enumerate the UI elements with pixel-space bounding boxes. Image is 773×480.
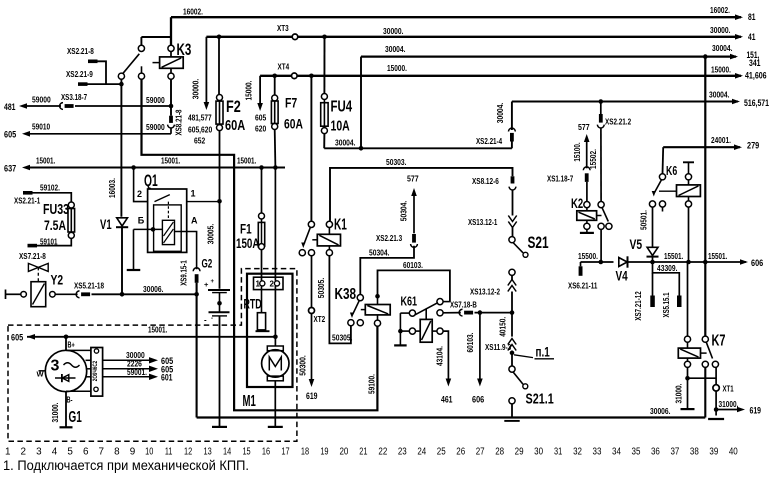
wire K3 coil output 59000 [170, 79, 172, 115]
wire 30004 bus [361, 55, 736, 57]
wire 15001 F7 output [274, 130, 277, 168]
svg-text:V1: V1 [100, 216, 112, 232]
node junction V5 [650, 260, 655, 265]
svg-text:10A: 10A [331, 117, 350, 134]
wire 577 marker [413, 192, 415, 233]
svg-text:59000: 59000 [146, 122, 165, 132]
connector XS13.12-1 [508, 216, 516, 222]
fuse F7 60A [274, 76, 276, 95]
svg-text:601: 601 [161, 373, 173, 383]
wire 60103 to 606 [478, 310, 483, 315]
connector XS2.21-2 [599, 114, 603, 123]
svg-text:16003.: 16003. [107, 178, 117, 198]
node junction Q1 pin2 [131, 165, 136, 170]
svg-text:24001.: 24001. [711, 135, 731, 145]
coil K2 [584, 202, 590, 208]
wire K7 coil bottom 31000 [687, 367, 689, 409]
svg-text:15000.: 15000. [711, 65, 731, 75]
svg-text:33: 33 [593, 447, 602, 458]
svg-text:652: 652 [194, 136, 206, 146]
svg-text:605,620: 605,620 [188, 125, 213, 135]
wire 2226 output to 605 [103, 368, 150, 370]
wire 30004 arrow to 151,341 [730, 54, 738, 60]
wire 15001 to 637 [22, 165, 30, 171]
node junction F2 feed [217, 35, 222, 40]
connector XS6.21-11 [579, 266, 583, 276]
svg-text:15000.: 15000. [387, 63, 407, 73]
node junction F1 feed [259, 165, 264, 170]
svg-text:50304.: 50304. [369, 247, 390, 257]
svg-text:481,577: 481,577 [188, 113, 212, 123]
valve Y2 butterfly symbol [28, 263, 38, 271]
connector XS13.12-2 [508, 280, 516, 286]
svg-text:K7: K7 [712, 333, 726, 350]
wire G1 phase leads [86, 359, 91, 361]
wire 43104 to 461 [443, 331, 448, 378]
svg-text:35: 35 [632, 447, 641, 458]
svg-text:3: 3 [36, 447, 42, 458]
svg-text:1. Подключается при механическ: 1. Подключается при механической КПП. [3, 458, 249, 474]
node junction V1 bottom [120, 292, 125, 297]
node junction F7 feed [272, 74, 277, 79]
svg-text:30004.: 30004. [712, 43, 733, 53]
contact K1 [308, 221, 314, 227]
wire K6 coil to 15501 [688, 207, 690, 262]
ground K2 [580, 232, 594, 234]
coil K1 [326, 221, 332, 227]
svg-text:2О9Ч6С2: 2О9Ч6С2 [92, 360, 99, 381]
svg-text:637: 637 [4, 164, 16, 174]
diode G1 internal [55, 377, 76, 379]
svg-text:50501.: 50501. [639, 210, 649, 230]
svg-text:2: 2 [137, 189, 142, 199]
svg-text:+: + [204, 280, 209, 289]
ground G2 [212, 426, 227, 428]
wire 15501 [628, 261, 746, 263]
connector XS3.18-7 [60, 103, 63, 110]
svg-text:7: 7 [99, 447, 105, 458]
svg-text:23: 23 [398, 447, 407, 458]
svg-text:32: 32 [573, 447, 582, 458]
wire RTD pin2 to motor [274, 286, 276, 346]
svg-text:279: 279 [747, 140, 759, 150]
wire G2 negative to ground [219, 316, 221, 427]
wire 30000 bus [206, 36, 741, 38]
svg-text:RTD: RTD [244, 297, 262, 312]
svg-text:59100.: 59100. [367, 374, 377, 394]
node junction XS7.18-B wire [510, 310, 515, 315]
motor M1 [267, 346, 283, 351]
wire 16002 arrow to 81 [735, 14, 743, 20]
node junction A-line [194, 292, 199, 297]
svg-text:16002.: 16002. [183, 7, 203, 17]
contact K7 [702, 336, 708, 342]
svg-text:V4: V4 [616, 269, 629, 284]
wire Q1 pin B to ground [134, 228, 163, 230]
svg-text:XS1.18-7: XS1.18-7 [547, 173, 573, 183]
wire S21.1 to 30006 bus [511, 404, 513, 418]
wire XS7.18-B to S21 chain [443, 312, 461, 314]
connector XS8.12-6 [511, 176, 515, 183]
svg-text:43104.: 43104. [435, 346, 445, 366]
svg-text:605: 605 [255, 113, 267, 123]
connector XS7.21-8 output [37, 238, 71, 245]
wire 30004 right vertical [704, 57, 706, 336]
solenoid Y2 [31, 282, 46, 307]
svg-text:50303.: 50303. [386, 157, 407, 167]
wire 30000 arrow to 41 [735, 34, 743, 40]
svg-text:13: 13 [204, 447, 213, 458]
svg-text:41,606: 41,606 [745, 71, 767, 81]
wire 30005 F2 to Q1/G2 [219, 131, 221, 289]
svg-text:15001.: 15001. [36, 156, 55, 166]
coil Q1 [162, 220, 174, 244]
svg-text:41: 41 [748, 32, 756, 42]
svg-text:21: 21 [359, 447, 368, 458]
ground K61 [394, 344, 407, 346]
svg-text:606: 606 [472, 394, 484, 404]
svg-text:XS11.9-3: XS11.9-3 [485, 342, 511, 352]
svg-text:XS13.12-2: XS13.12-2 [470, 286, 500, 296]
terminal XT3 [292, 34, 298, 40]
wire 16003 vertical [120, 84, 122, 217]
svg-text:B-: B- [67, 396, 73, 405]
coil K7 [687, 262, 689, 336]
svg-text:+: + [211, 279, 215, 285]
wire 15001 to G1 area [27, 336, 275, 338]
terminal XT4 [292, 73, 298, 79]
wire 15501 arrow to 606 [740, 259, 748, 265]
svg-text:15501.: 15501. [664, 251, 683, 261]
svg-text:341: 341 [749, 58, 761, 68]
svg-text:30005.: 30005. [206, 224, 216, 245]
svg-text:15001.: 15001. [237, 156, 256, 166]
wire to XT1 [688, 377, 717, 379]
svg-text:9: 9 [130, 447, 136, 458]
svg-text:XT4: XT4 [278, 61, 290, 71]
svg-text:50305.: 50305. [316, 278, 326, 299]
svg-text:15500.: 15500. [578, 251, 598, 261]
node junction K6 coil [686, 260, 691, 265]
svg-text:15501.: 15501. [708, 251, 727, 261]
svg-text:30004.: 30004. [495, 103, 505, 124]
wire 50305 K1 coil to K38 [329, 256, 351, 344]
frame dashed enclosure [8, 269, 297, 442]
svg-text:K6: K6 [666, 164, 677, 178]
wire M1 to ground [274, 381, 276, 427]
svg-text:59101: 59101 [40, 237, 58, 247]
svg-text:S21.1: S21.1 [526, 390, 554, 407]
svg-text:30006.: 30006. [143, 284, 164, 294]
svg-text:10: 10 [145, 447, 154, 458]
node junction Q1 pin1 [217, 199, 222, 204]
svg-text:50304.: 50304. [399, 201, 409, 222]
svg-text:605: 605 [11, 332, 23, 342]
svg-text:XS8.21-8: XS8.21-8 [174, 109, 184, 135]
connector XS1.18-7 [583, 167, 590, 170]
svg-text:60A: 60A [284, 116, 303, 132]
wire 24001 bus [663, 146, 740, 148]
wire 50303 K1 to S21 [330, 168, 513, 226]
node junction RTD pin2 feed [273, 165, 278, 170]
svg-text:577: 577 [407, 174, 419, 184]
svg-text:30004.: 30004. [385, 44, 406, 54]
wire G1 B- to ground [65, 392, 67, 428]
wire 59100 loop K3 to K38 coil [142, 79, 378, 410]
svg-text:50305.: 50305. [332, 332, 353, 342]
svg-text:п.1: п.1 [536, 345, 551, 360]
svg-text:619: 619 [750, 405, 762, 415]
svg-text:15001.: 15001. [148, 324, 167, 334]
wire 30006 left leg [196, 283, 198, 418]
wire K1 contact feed from 15000 [310, 76, 312, 222]
svg-text:59000: 59000 [32, 95, 51, 105]
ground Q1 [127, 269, 141, 271]
node 30000 branch marker to 481,577 [205, 37, 207, 102]
wire 50300 to 619 [311, 314, 313, 379]
svg-text:2: 2 [21, 447, 27, 458]
svg-text:5: 5 [67, 447, 73, 458]
contact K61 terminals [437, 299, 443, 305]
wire 16002 bus [171, 16, 741, 18]
svg-text:-: - [204, 315, 207, 324]
wire 16002 drop to K3 [170, 17, 172, 45]
svg-text:30004.: 30004. [335, 138, 356, 148]
wire 15000 arrow to 41,606 [735, 73, 743, 79]
wire 31000 to 619 [715, 391, 717, 415]
wire 15500 [581, 261, 614, 263]
svg-text:606: 606 [751, 258, 763, 268]
node junction 30004 right vertical [703, 54, 708, 59]
wire Y2 left lead [5, 290, 7, 300]
svg-text:40: 40 [729, 447, 738, 458]
ground XT1 [708, 418, 724, 420]
svg-text:15100.: 15100. [572, 142, 582, 161]
svg-text:15502.: 15502. [588, 149, 598, 169]
generator G1 [45, 350, 86, 391]
wire 30004 arrow to 516,571 [732, 99, 740, 105]
svg-text:1: 1 [191, 189, 196, 199]
svg-text:18: 18 [301, 447, 310, 458]
wire 24001 drop to K6 [662, 147, 665, 174]
contact K3 lower terminals [118, 73, 124, 79]
wire 30004 FU4 output [324, 147, 512, 149]
svg-text:XS2.21-1: XS2.21-1 [14, 195, 40, 205]
wire 15000 bus [260, 75, 741, 77]
svg-text:20: 20 [339, 447, 348, 458]
wire G1 B+ [65, 337, 67, 351]
fuse F1 150A [261, 168, 263, 214]
connector XS7.21-12 [650, 296, 655, 308]
connector XS8.21-8 [169, 116, 173, 123]
wire 30000 output to 605 [103, 359, 150, 361]
contact K3 blade [123, 54, 139, 74]
svg-text:31000.: 31000. [50, 403, 60, 423]
svg-text:38: 38 [690, 447, 699, 458]
svg-text:59001.: 59001. [127, 367, 147, 377]
wire Y2 right lead 30006 [50, 292, 56, 298]
svg-text:G2: G2 [202, 256, 213, 270]
svg-text:12: 12 [184, 447, 192, 458]
wire V1 to 30006 [121, 227, 123, 294]
svg-text:XS2.21-9: XS2.21-9 [66, 69, 93, 79]
connector XS9.15-1 [193, 268, 200, 271]
coil K6 [683, 161, 694, 163]
svg-text:17: 17 [281, 447, 289, 458]
contact K2 [598, 202, 604, 208]
svg-text:30006.: 30006. [650, 406, 671, 416]
fuse FU33 7.5A [33, 193, 72, 202]
node junction K1 feed [309, 74, 314, 79]
svg-text:30000.: 30000. [710, 25, 731, 35]
svg-text:30: 30 [534, 447, 543, 458]
connector XS11.9-3 [508, 339, 516, 345]
svg-text:XS7.21-8: XS7.21-8 [19, 251, 46, 261]
wire K1 to XT2 [311, 256, 313, 307]
svg-text:11: 11 [165, 447, 173, 458]
svg-text:3: 3 [51, 358, 60, 375]
svg-text:30000.: 30000. [383, 26, 404, 36]
wire F1 to RTD pin1 [261, 250, 263, 281]
fuse F2 60A [218, 37, 220, 95]
svg-text:50300.: 50300. [298, 355, 308, 376]
ground K7 coil [681, 408, 695, 410]
wire 60103 K38 to K61 [378, 270, 450, 301]
wire 43309 [653, 262, 680, 296]
svg-text:37: 37 [670, 447, 679, 458]
svg-text:Б: Б [138, 215, 145, 225]
wire K2 to 15500 [600, 229, 602, 262]
coil K61 [425, 309, 427, 320]
wire 59001 output to 601 [103, 376, 150, 378]
wire G1 bottom pin [66, 390, 91, 392]
svg-text:19: 19 [320, 447, 329, 458]
svg-text:Q1: Q1 [144, 172, 158, 190]
svg-text:K2: K2 [571, 196, 583, 211]
connector XS5.15.1 [677, 296, 682, 308]
wire Q1 pin A [175, 232, 197, 270]
svg-text:577: 577 [578, 122, 590, 132]
svg-text:Y2: Y2 [51, 272, 64, 288]
svg-text:27: 27 [476, 447, 485, 458]
svg-text:36: 36 [651, 447, 660, 458]
svg-text:81: 81 [748, 12, 756, 22]
svg-text:29: 29 [515, 447, 524, 458]
contact K38 [357, 295, 363, 301]
terminal XT1 [713, 385, 719, 391]
wire G1 top pin [66, 349, 91, 351]
svg-text:XS2.21-8: XS2.21-8 [67, 46, 94, 56]
svg-text:K38: K38 [335, 286, 357, 303]
wire K61 left terminals to ground [409, 310, 415, 316]
contact K6 [659, 174, 665, 180]
terminal XT2 [309, 308, 315, 314]
wire 30004 drop to FU4 output [360, 57, 362, 149]
wire 50304 to K38 contact [360, 246, 414, 295]
frame Q1 inner [154, 205, 182, 251]
connector XS5.21-18 [76, 291, 79, 298]
svg-text:31: 31 [554, 447, 563, 458]
svg-text:XS5.21-18: XS5.21-18 [74, 280, 104, 290]
svg-text:A: A [191, 215, 198, 225]
svg-text:60103.: 60103. [403, 260, 423, 270]
svg-text:59000: 59000 [146, 95, 165, 105]
svg-text:-: - [211, 316, 213, 322]
contact K3 upper terminals [138, 45, 144, 51]
svg-text:2: 2 [270, 280, 275, 289]
svg-text:30000.: 30000. [191, 79, 201, 100]
frame M1 box [247, 274, 293, 387]
node 15000 branch marker to 605,620 [259, 76, 261, 103]
svg-text:516,571: 516,571 [744, 98, 769, 108]
svg-text:22: 22 [378, 447, 387, 458]
wire FU4 output to 30004 [323, 134, 325, 149]
wire 30006 bus [197, 416, 706, 418]
svg-text:XS13.12-1: XS13.12-1 [468, 217, 498, 227]
connector XS2.21-4 [511, 102, 513, 131]
node junction FU4 feed [322, 35, 327, 40]
svg-text:XS7.21-12: XS7.21-12 [633, 291, 643, 321]
svg-text:K1: K1 [334, 217, 347, 234]
svg-text:60A: 60A [225, 117, 245, 134]
svg-text:G1: G1 [69, 409, 82, 426]
svg-text:620: 620 [255, 124, 267, 134]
svg-text:M1: M1 [243, 393, 256, 410]
svg-text:B+: B+ [68, 341, 75, 350]
svg-text:60103.: 60103. [465, 333, 475, 353]
svg-text:605: 605 [4, 129, 16, 139]
svg-text:15001.: 15001. [161, 156, 180, 166]
wire Q1 pin2 [134, 168, 148, 202]
terminal block G1 connector [91, 348, 103, 397]
svg-text:K61: K61 [401, 293, 418, 308]
svg-text:25: 25 [437, 447, 446, 458]
svg-text:S21: S21 [528, 234, 549, 252]
switch Q1 blade [155, 195, 170, 202]
svg-text:F1: F1 [240, 221, 252, 237]
svg-text:40150.: 40150. [498, 317, 508, 337]
contact K61 blade [415, 303, 438, 315]
switch S21.1 [509, 366, 515, 372]
fuse FU4 10A [323, 37, 325, 94]
svg-text:16: 16 [262, 447, 271, 458]
svg-text:7.5A: 7.5A [44, 217, 66, 233]
node junction p.1 [510, 351, 515, 356]
connector XS2.21-3 [412, 234, 416, 243]
connector XS7.18-B [459, 309, 462, 316]
svg-text:F2: F2 [226, 98, 241, 116]
svg-text:43309.: 43309. [657, 263, 678, 273]
wire Q1 pin1 [187, 201, 220, 203]
svg-text:16002.: 16002. [710, 5, 730, 15]
svg-text:XS3.18-7: XS3.18-7 [61, 92, 87, 102]
ground M1 [268, 426, 283, 428]
svg-text:6: 6 [83, 447, 89, 458]
svg-text:XS2.21-4: XS2.21-4 [476, 136, 502, 146]
svg-text:14: 14 [223, 447, 232, 458]
svg-text:150A: 150A [236, 236, 260, 251]
node junction right vertical [703, 260, 708, 265]
wire 30004 second bus [512, 100, 738, 102]
svg-text:15: 15 [242, 447, 251, 458]
wire 50501 V5 to K6 [652, 207, 654, 247]
svg-text:F7: F7 [285, 95, 297, 110]
svg-text:XS2.21.3: XS2.21.3 [376, 233, 402, 243]
wire K7 to 30006 bus [704, 367, 706, 417]
terminal block RTD pins 1 2 [254, 277, 284, 289]
svg-text:XS5.15.1: XS5.15.1 [661, 292, 671, 317]
svg-text:34: 34 [612, 447, 621, 458]
